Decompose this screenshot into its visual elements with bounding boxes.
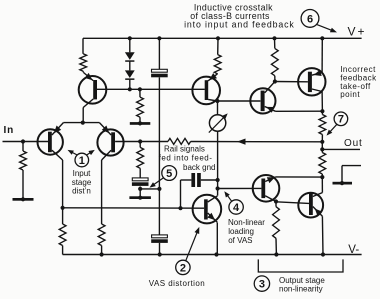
annotation circle 3: output stage non-linearity bracket	[254, 259, 343, 291]
annotation circle 5 with arrow: rail signals into feedback ground	[150, 166, 177, 188]
ground: feedback ground	[129, 196, 151, 199]
resistor: feedback resistor from output	[140, 138, 191, 144]
transistor Q7 upper output device (PNP)	[298, 68, 325, 111]
wire: lower driver emitter to output node	[276, 176, 323, 178]
text: Rail signals fed into feed-back gnd	[159, 144, 216, 172]
resistor: VAS current-source emitter resistor	[214, 38, 221, 74]
text: Input stage dist'n	[72, 169, 92, 195]
junction dots on V- rail	[100, 252, 326, 256]
node: VAS collector load / upper driver base node	[215, 99, 260, 115]
wire: upper output device base	[275, 81, 308, 83]
wire: feedback ground link to decoupling ground	[138, 187, 159, 198]
resistor: feedback shunt resistor	[137, 142, 144, 178]
wire: lower output emitter to V- rail	[321, 216, 324, 254]
diode D2 bias diode	[125, 70, 135, 91]
transistor Q6 upper driver (PNP)	[250, 82, 275, 114]
text: Incorrect feedback take-off point	[340, 65, 377, 99]
wire: V+ decoupling branch	[158, 38, 160, 69]
node: output / feedback take-off point	[320, 140, 324, 152]
svg-text:Rail signals: Rail signals	[164, 144, 205, 153]
capacitor: V+ rail decoupling capacitor	[152, 69, 168, 72]
wire: V- supply rail	[63, 254, 362, 256]
resistor: left input collector load	[59, 224, 66, 255]
resistor: right input collector load	[98, 224, 105, 255]
load: output load to ground	[333, 166, 362, 186]
capacitor: Miller compensation cap Cdom	[178, 173, 217, 210]
svg-text:point: point	[340, 90, 360, 99]
svg-text:V+: V+	[348, 25, 367, 39]
capacitor: feedback shunt electrolytic	[132, 178, 148, 181]
transistor Q8 lower driver (NPN)	[253, 175, 280, 202]
svg-text:4: 4	[233, 202, 240, 214]
transistor Q1 input tail current source (PNP)	[79, 73, 107, 123]
svg-text:fed into feed-: fed into feed-	[159, 153, 213, 162]
wire: decoupling to V- rail	[159, 243, 161, 255]
resistor: input bias resistor to ground	[20, 142, 27, 199]
wire: V+ supply rail	[83, 37, 362, 39]
svg-text:dist’n: dist’n	[72, 187, 91, 196]
wire: left input collector to load resistor	[61, 160, 65, 224]
transistor Q5 VAS (NPN)	[193, 195, 222, 255]
transistor Q2 left input device (PNP)	[38, 123, 64, 160]
svg-text:VAS distortion: VAS distortion	[149, 279, 205, 288]
capacitor: V- rail decoupling capacitor	[152, 235, 168, 238]
transistor Q3 right input device (PNP)	[97, 123, 123, 160]
wire: tail rail joining input pair emitters	[63, 121, 99, 125]
svg-text:In: In	[4, 125, 15, 136]
svg-text:1: 1	[79, 155, 85, 167]
svg-text:2: 2	[180, 262, 186, 274]
annotation circle 2 with arrow: VAS distortion	[176, 227, 200, 275]
text: Inductive crosstalk of class-B currents into input and feedback	[184, 2, 295, 29]
transistor Q4 VAS collector load current source (PNP)	[192, 73, 220, 104]
arrowhead on feedback line	[237, 139, 246, 145]
wire: input collector to VAS base	[63, 207, 205, 209]
resistor: input current-source emitter resistor	[80, 38, 87, 72]
text: Non-linear loading of VAS	[228, 218, 265, 245]
annotation circle 7 with arrow: incorrect feedback take-off point	[327, 112, 348, 136]
annotation circle 4 with arrow: non-linear loading of VAS	[224, 191, 243, 214]
transistor Q9 lower output device (PNP)	[298, 193, 323, 218]
resistor: lower emitter resistor Re	[319, 149, 326, 179]
label Out and output stub	[322, 138, 362, 149]
ground: input ground	[13, 198, 34, 201]
svg-text:5: 5	[166, 168, 172, 180]
svg-text:6: 6	[307, 13, 313, 25]
node In: input terminal	[3, 125, 49, 143]
wire: bias generator to VAS collector column	[216, 131, 220, 195]
annotation circle 6 with arrow: inductive crosstalk	[301, 10, 337, 33]
svg-text:of VAS: of VAS	[228, 236, 252, 245]
svg-text:Incorrect: Incorrect	[340, 65, 376, 74]
wire: global feedback line from output node	[191, 141, 323, 143]
diode D1 bias diode	[125, 38, 135, 70]
wire: upper driver emitter to output column	[276, 109, 325, 113]
junction dots on V+ rail	[128, 36, 325, 40]
svg-text:into input and feedback: into input and feedback	[184, 20, 295, 30]
svg-text:back gnd: back gnd	[183, 163, 215, 172]
svg-text:loading: loading	[228, 227, 254, 236]
wire: lower driver base from bias generator column	[218, 187, 262, 189]
wire: right input collector to load resistor	[101, 160, 103, 224]
annotation circle 1 with arrows: input stage distortion	[68, 150, 95, 167]
resistor: upper emitter resistor Re	[319, 111, 326, 142]
svg-text:stage: stage	[72, 178, 92, 187]
wire: current-source bias line	[97, 88, 205, 90]
wire: V+ rail to upper output emitter	[321, 38, 323, 72]
resistor: upper driver collector resistor from V+	[271, 38, 278, 83]
bias generator (adjustable Vbe multiplier)	[209, 113, 228, 132]
wire: lower output collector to output node	[321, 177, 323, 193]
node: lower driver collector / lower output base	[274, 199, 309, 203]
svg-text:non-linearity: non-linearity	[279, 285, 323, 294]
resistor: lower driver collector resistor to V-	[273, 202, 280, 255]
svg-text:7: 7	[338, 114, 344, 126]
svg-text:V-: V-	[348, 244, 359, 256]
svg-text:Out: Out	[344, 138, 363, 149]
node: feedback node at input pair base	[115, 139, 142, 143]
text: Output stage non-linearity	[279, 276, 325, 294]
svg-text:3: 3	[259, 279, 265, 291]
ground: bias chain ground	[130, 122, 151, 125]
resistor: bias chain resistor to ground	[137, 87, 144, 123]
wire: decoupling ground column	[157, 77, 161, 235]
